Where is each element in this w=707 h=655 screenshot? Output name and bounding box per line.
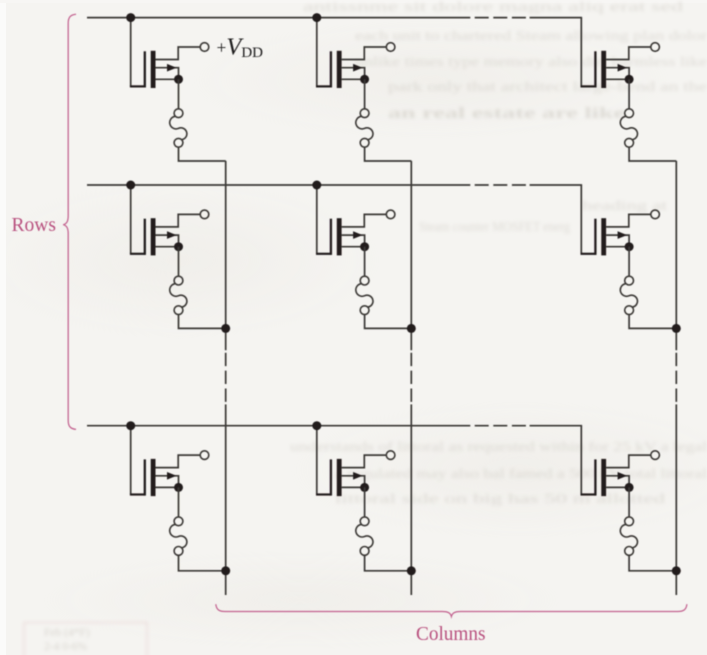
wire source of Q8 to fuse F8 <box>364 487 366 517</box>
wire gate of Q2 from row 1 <box>316 18 318 87</box>
wire fuse F4 to column 1 <box>179 315 226 329</box>
node row 1 / gate tap 2 <box>312 13 321 22</box>
wire fuse F8 to column 2 <box>365 555 412 571</box>
svg-text:Steam counter MOSFET energ: Steam counter MOSFET energ <box>419 219 570 234</box>
node source junction of Q1 <box>174 75 183 84</box>
column line 3 (bit line) <box>675 161 677 595</box>
svg-text:littoral side on big has 50 m: littoral side on big has 50 m allotted <box>335 491 665 506</box>
node junction on column 2 <box>407 324 416 333</box>
svg-text:an real estate are like: an real estate are like <box>388 105 625 122</box>
row line 3 (word line) <box>87 425 582 427</box>
transistor Q7 (MOSFET) <box>130 455 200 496</box>
wire source of Q2 to fuse F2 <box>364 79 366 109</box>
terminal drain of Q8 (open circle) <box>386 451 395 460</box>
transistor Q8 (MOSFET) <box>316 455 386 496</box>
terminal drain of Q9 (open circle) <box>651 451 660 460</box>
fuse F3 (fusible link) <box>620 109 637 147</box>
brace rows (left curly bracket) <box>63 14 76 429</box>
svg-text:park only that architect large: park only that architect large-bend an t… <box>388 79 707 94</box>
wire source of Q9 to fuse F9 <box>628 487 630 517</box>
svg-text:Feb (4*F): Feb (4*F) <box>44 627 90 639</box>
brace columns (bottom curly bracket) <box>216 604 687 616</box>
node source junction of Q6 <box>625 242 634 251</box>
transistor Q4 (MOSFET) <box>130 214 200 255</box>
wire source of Q5 to fuse F5 <box>364 247 366 277</box>
transistor Q1 (MOSFET) <box>130 47 200 88</box>
wire source of Q1 to fuse F1 <box>178 79 180 109</box>
svg-text:Rows: Rows <box>12 215 56 236</box>
node source junction of Q8 <box>360 483 369 492</box>
node row 2 / gate tap 1 <box>126 181 135 190</box>
wire gate of Q3 from row 1 <box>580 18 582 87</box>
node row 2 / gate tap 2 <box>312 181 321 190</box>
terminal drain of Q5 (open circle) <box>386 210 395 219</box>
wire gate of Q8 from row 3 <box>316 426 318 495</box>
svg-text:Columns: Columns <box>416 623 486 645</box>
wire gate of Q4 from row 2 <box>130 185 132 254</box>
terminal drain of Q1 (open circle) <box>200 43 209 52</box>
svg-text:understands of littoral as req: understands of littoral as requested wit… <box>290 439 707 454</box>
terminal drain of Q4 (open circle) <box>200 210 209 219</box>
fuse F5 (fusible link) <box>356 276 373 314</box>
node junction on column 2 <box>407 566 416 575</box>
node junction on column 1 <box>221 324 230 333</box>
node junction on column 1 <box>221 566 230 575</box>
wire gate of Q9 from row 3 <box>580 426 582 495</box>
fuse F7 (fusible link) <box>170 517 187 555</box>
row line 1 (word line) <box>87 17 582 19</box>
fuse F6 (fusible link) <box>620 276 637 314</box>
transistor Q2 (MOSFET) <box>316 47 386 88</box>
svg-text:each unit to chartered Steam a: each unit to chartered Steam allowing pl… <box>355 28 707 43</box>
terminal drain of Q3 (open circle) <box>651 43 660 52</box>
transistor Q6 (MOSFET) <box>581 214 651 255</box>
node source junction of Q3 <box>625 75 634 84</box>
node source junction of Q4 <box>174 242 183 251</box>
node junction on column 3 <box>672 324 681 333</box>
fuse F2 (fusible link) <box>356 109 373 147</box>
wire fuse F3 to column 3 <box>629 147 676 161</box>
wire gate of Q6 from row 2 <box>580 185 582 254</box>
wire fuse F7 to column 1 <box>179 555 226 571</box>
svg-text:antissnme sit dolore magna ali: antissnme sit dolore magna aliq erat sed <box>303 0 683 14</box>
wire fuse F2 to column 2 <box>365 147 412 161</box>
wire source of Q3 to fuse F3 <box>628 79 630 109</box>
wire source of Q4 to fuse F4 <box>178 247 180 277</box>
wire gate of Q1 from row 1 <box>130 18 132 87</box>
transistor Q3 (MOSFET) <box>581 47 651 88</box>
wire fuse F6 to column 3 <box>629 315 676 329</box>
svg-text:2-4 0-6%: 2-4 0-6% <box>44 641 88 653</box>
wire fuse F9 to column 3 <box>629 555 676 571</box>
fuse F8 (fusible link) <box>356 517 373 555</box>
node source junction of Q5 <box>360 242 369 251</box>
wire gate of Q7 from row 3 <box>130 426 132 495</box>
node row 1 / gate tap 1 <box>126 13 135 22</box>
svg-text:unlike times type memory also: unlike times type memory also dirt harml… <box>355 54 707 69</box>
terminal drain of Q7 (open circle) <box>200 451 209 460</box>
wire source of Q7 to fuse F7 <box>178 487 180 517</box>
node source junction of Q2 <box>360 75 369 84</box>
node source junction of Q7 <box>174 483 183 492</box>
node source junction of Q9 <box>625 483 634 492</box>
transistor Q9 (MOSFET) <box>581 455 651 496</box>
terminal drain of Q6 (open circle) <box>651 210 660 219</box>
node junction on column 3 <box>672 566 681 575</box>
fuse F1 (fusible link) <box>170 109 187 147</box>
fuse F4 (fusible link) <box>170 276 187 314</box>
fuse F9 (fusible link) <box>620 517 637 555</box>
svg-text:a regulated may also bal famed: a regulated may also bal famed a 500 kV … <box>335 466 707 481</box>
column line 1 (bit line) <box>225 161 227 595</box>
node row 3 / gate tap 1 <box>126 421 135 430</box>
terminal drain of Q2 (open circle) <box>386 43 395 52</box>
wire gate of Q5 from row 2 <box>316 185 318 254</box>
wire source of Q6 to fuse F6 <box>628 247 630 277</box>
column line 2 (bit line) <box>410 161 412 595</box>
wire fuse F5 to column 2 <box>365 315 412 329</box>
node row 3 / gate tap 2 <box>312 421 321 430</box>
wire fuse F1 to column 1 <box>179 147 226 161</box>
transistor Q5 (MOSFET) <box>316 214 386 255</box>
row line 2 (word line) <box>87 184 582 186</box>
